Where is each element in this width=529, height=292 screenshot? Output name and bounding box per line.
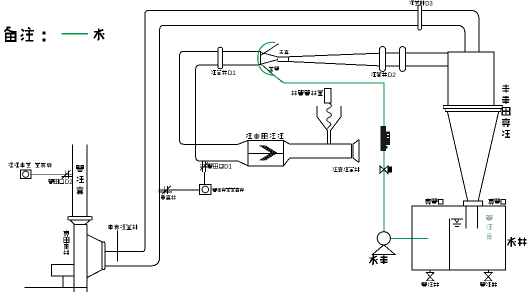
- svg-text:D1: D1: [228, 70, 237, 77]
- svg-text:D3: D3: [425, 1, 433, 7]
- svg-text:D2: D2: [388, 72, 397, 79]
- svg-text:D1: D1: [224, 164, 232, 171]
- svg-text:D2: D2: [65, 179, 73, 186]
